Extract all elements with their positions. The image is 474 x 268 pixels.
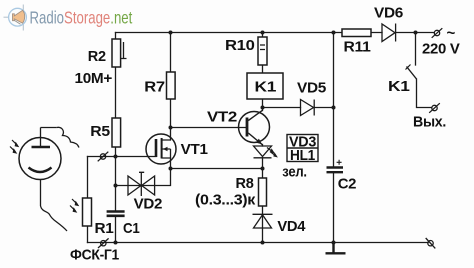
svg-text:C2: C2 bbox=[338, 176, 357, 193]
svg-text:R2: R2 bbox=[88, 48, 106, 65]
wire R1 column bbox=[87, 157, 89, 243]
svg-text:HL1: HL1 bbox=[290, 147, 315, 164]
wire VT1 drain to VT2 base bbox=[171, 128, 247, 141]
svg-text:VD2: VD2 bbox=[134, 196, 163, 213]
wire K1 contact drop bbox=[415, 33, 417, 66]
junction 220V corner bbox=[414, 31, 418, 35]
relay coil K1 box bbox=[247, 73, 283, 99]
junction VT1 drain node bbox=[169, 126, 173, 130]
resistor R7 bbox=[167, 72, 176, 99]
resistor R11 bbox=[342, 29, 371, 37]
relay contact K1 bbox=[407, 67, 417, 80]
resistor R10 bbox=[258, 37, 267, 65]
wire VD5 row bbox=[263, 107, 334, 109]
logo text RadioStorage.net bbox=[30, 9, 133, 28]
diode VD2 (bidirectional) bbox=[128, 172, 155, 196]
diode VD4 bbox=[253, 214, 273, 228]
svg-text:10M+: 10M+ bbox=[75, 70, 113, 87]
junction C2 top rail bbox=[332, 31, 336, 35]
resistor R5 bbox=[112, 118, 121, 147]
svg-text:RadioStorage.net: RadioStorage.net bbox=[30, 9, 133, 28]
wire right rail C2 column bbox=[333, 33, 335, 243]
svg-text:Вых.: Вых. bbox=[413, 113, 446, 130]
svg-text:VT1: VT1 bbox=[181, 141, 208, 158]
svg-text:R11: R11 bbox=[344, 38, 371, 55]
wire gate line y=156.5 bbox=[88, 156, 157, 158]
junction R10 top rail bbox=[261, 31, 265, 35]
svg-text:K1: K1 bbox=[255, 79, 277, 96]
svg-text:VD6: VD6 bbox=[374, 4, 403, 21]
capacitor C1 bbox=[107, 212, 125, 216]
wire contact to Vyh terminal bbox=[417, 79, 432, 108]
junction R5 bottom node bbox=[114, 155, 118, 159]
junction LED R8 node bbox=[261, 167, 265, 171]
trimmer tap of R2 bbox=[121, 42, 127, 59]
svg-text:(0.3...3)к: (0.3...3)к bbox=[195, 192, 256, 209]
label box VD3 HL1 bbox=[287, 135, 318, 162]
wire VT1 source row bbox=[171, 158, 263, 169]
svg-text:VD4: VD4 bbox=[277, 218, 306, 235]
junction C2 bottom rail bbox=[332, 241, 336, 245]
junction R7 top rail bbox=[169, 31, 173, 35]
resistor R8 bbox=[259, 178, 267, 206]
wire R7 column bbox=[170, 33, 172, 128]
transistor VT2 (NPN) bbox=[239, 110, 270, 145]
diode VD5 bbox=[301, 100, 315, 116]
terminal on gate wire bbox=[98, 152, 109, 162]
junction VD5 right rail bbox=[332, 106, 336, 110]
svg-text:R1: R1 bbox=[95, 220, 114, 237]
light arrows at phototube bbox=[10, 140, 19, 154]
terminal 220V bbox=[432, 28, 443, 38]
logo icon bbox=[4, 5, 27, 31]
terminal bottom right bbox=[426, 238, 436, 248]
terminal on bottom rail bbox=[98, 238, 109, 248]
wire bottom rail bbox=[88, 242, 429, 244]
capacitor C2 bbox=[327, 168, 344, 173]
wire VD2 branch bbox=[116, 169, 171, 186]
junction VT1 source node bbox=[169, 167, 173, 171]
svg-text:R7: R7 bbox=[144, 79, 165, 96]
svg-text:R10: R10 bbox=[225, 37, 255, 54]
LED VD3/HL1 bbox=[254, 146, 276, 158]
wire left column R2/R5 down to C1 bbox=[115, 33, 117, 243]
chassis bar bbox=[326, 243, 346, 254]
resistor R2 bbox=[112, 39, 121, 67]
junction VD2 left node bbox=[114, 184, 118, 188]
wire R10/K1/VT2/LED/R8/VD4 column bbox=[262, 33, 264, 243]
svg-text:220 V: 220 V bbox=[422, 40, 460, 57]
wire top rail bbox=[116, 32, 435, 34]
junction C1 bottom rail bbox=[114, 241, 118, 245]
transistor VT1 (MOSFET) bbox=[146, 134, 176, 164]
junction VT2 collector node bbox=[261, 106, 265, 110]
svg-text:R5: R5 bbox=[90, 123, 110, 140]
photoresistor light arrows at R1 bbox=[70, 199, 79, 213]
phototube (photocell) bbox=[19, 127, 79, 231]
svg-text:C1: C1 bbox=[123, 220, 140, 237]
svg-text:VT2: VT2 bbox=[207, 109, 237, 126]
resistor R1 (photoresistor) bbox=[83, 198, 92, 226]
svg-text:зел.: зел. bbox=[282, 164, 307, 181]
svg-text:K1: K1 bbox=[388, 78, 410, 95]
terminal Vyh bbox=[429, 103, 440, 113]
diode VD6 bbox=[382, 24, 396, 42]
svg-text:VD5: VD5 bbox=[297, 80, 326, 97]
svg-text:ФСК-Г1: ФСК-Г1 bbox=[70, 247, 119, 264]
junction VD4 bottom rail bbox=[261, 241, 265, 245]
svg-text:R8: R8 bbox=[236, 175, 254, 192]
